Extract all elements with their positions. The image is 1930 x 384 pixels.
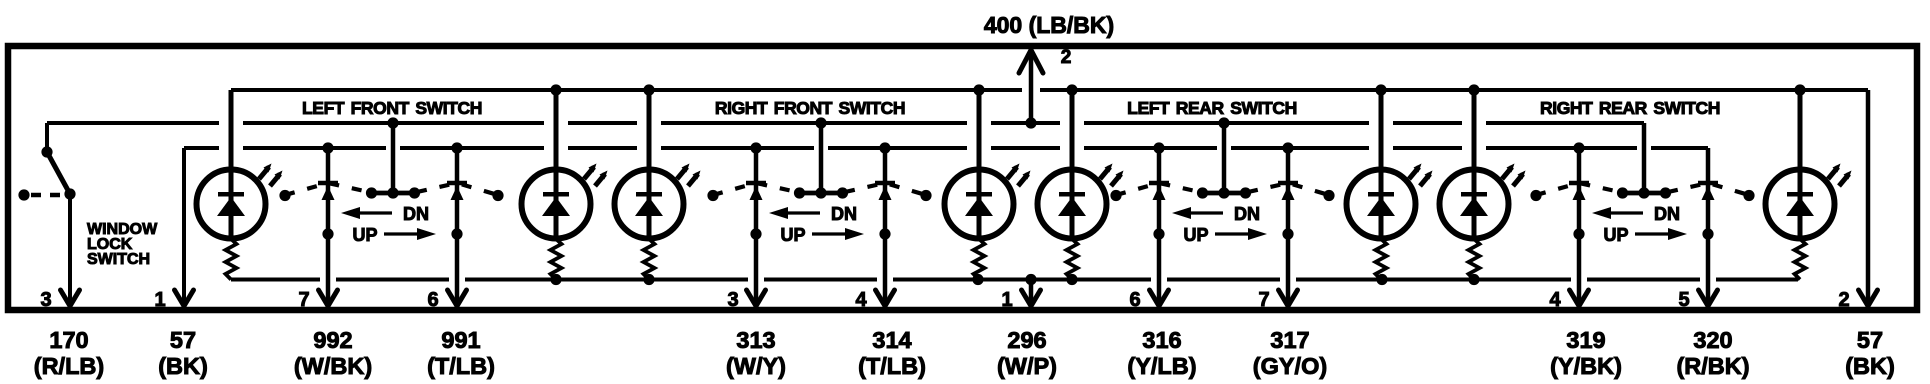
- svg-text:UP: UP: [1183, 225, 1208, 245]
- svg-text:(T/LB): (T/LB): [427, 353, 495, 379]
- svg-text:313: 313: [736, 327, 775, 353]
- svg-text:(Y/LB): (Y/LB): [1127, 353, 1196, 379]
- svg-text:1: 1: [1001, 289, 1012, 311]
- svg-text:(Y/BK): (Y/BK): [1550, 353, 1622, 379]
- svg-text:DN: DN: [403, 204, 429, 224]
- svg-text:5: 5: [1678, 289, 1689, 311]
- svg-text:6: 6: [1129, 289, 1140, 311]
- svg-text:(GY/O): (GY/O): [1253, 353, 1327, 379]
- svg-text:(R/BK): (R/BK): [1676, 353, 1749, 379]
- svg-text:314: 314: [872, 327, 911, 353]
- svg-text:RIGHT REAR SWITCH: RIGHT REAR SWITCH: [1540, 98, 1720, 118]
- svg-text:LEFT REAR SWITCH: LEFT REAR SWITCH: [1127, 98, 1297, 118]
- svg-text:DN: DN: [1234, 204, 1260, 224]
- svg-text:(T/LB): (T/LB): [858, 353, 926, 379]
- svg-text:1: 1: [154, 289, 165, 311]
- svg-text:2: 2: [1838, 289, 1849, 311]
- svg-text:316: 316: [1142, 327, 1181, 353]
- svg-text:4: 4: [855, 289, 867, 311]
- svg-text:(R/LB): (R/LB): [34, 353, 104, 379]
- svg-text:991: 991: [441, 327, 480, 353]
- svg-text:7: 7: [298, 289, 309, 311]
- svg-text:UP: UP: [352, 225, 377, 245]
- svg-text:57: 57: [170, 327, 196, 353]
- svg-text:57: 57: [1857, 327, 1883, 353]
- svg-text:4: 4: [1549, 289, 1561, 311]
- svg-text:3: 3: [727, 289, 738, 311]
- svg-text:170: 170: [49, 327, 88, 353]
- svg-text:296: 296: [1007, 327, 1046, 353]
- svg-text:(W/Y): (W/Y): [726, 353, 786, 379]
- svg-text:DN: DN: [831, 204, 857, 224]
- svg-text:400 (LB/BK): 400 (LB/BK): [984, 12, 1114, 38]
- svg-text:UP: UP: [1603, 225, 1628, 245]
- svg-text:317: 317: [1270, 327, 1309, 353]
- svg-text:2: 2: [1061, 47, 1072, 68]
- svg-text:SWITCH: SWITCH: [87, 251, 150, 268]
- svg-text:(BK): (BK): [1845, 353, 1895, 379]
- svg-text:320: 320: [1693, 327, 1732, 353]
- svg-text:(BK): (BK): [158, 353, 208, 379]
- svg-text:7: 7: [1258, 289, 1269, 311]
- svg-text:992: 992: [313, 327, 352, 353]
- svg-text:6: 6: [427, 289, 438, 311]
- svg-text:DN: DN: [1654, 204, 1680, 224]
- svg-text:(W/P): (W/P): [997, 353, 1057, 379]
- svg-text:LEFT FRONT SWITCH: LEFT FRONT SWITCH: [302, 98, 482, 118]
- svg-text:(W/BK): (W/BK): [294, 353, 372, 379]
- svg-text:UP: UP: [780, 225, 805, 245]
- svg-text:3: 3: [40, 289, 51, 311]
- svg-text:RIGHT FRONT SWITCH: RIGHT FRONT SWITCH: [715, 98, 905, 118]
- svg-text:319: 319: [1566, 327, 1605, 353]
